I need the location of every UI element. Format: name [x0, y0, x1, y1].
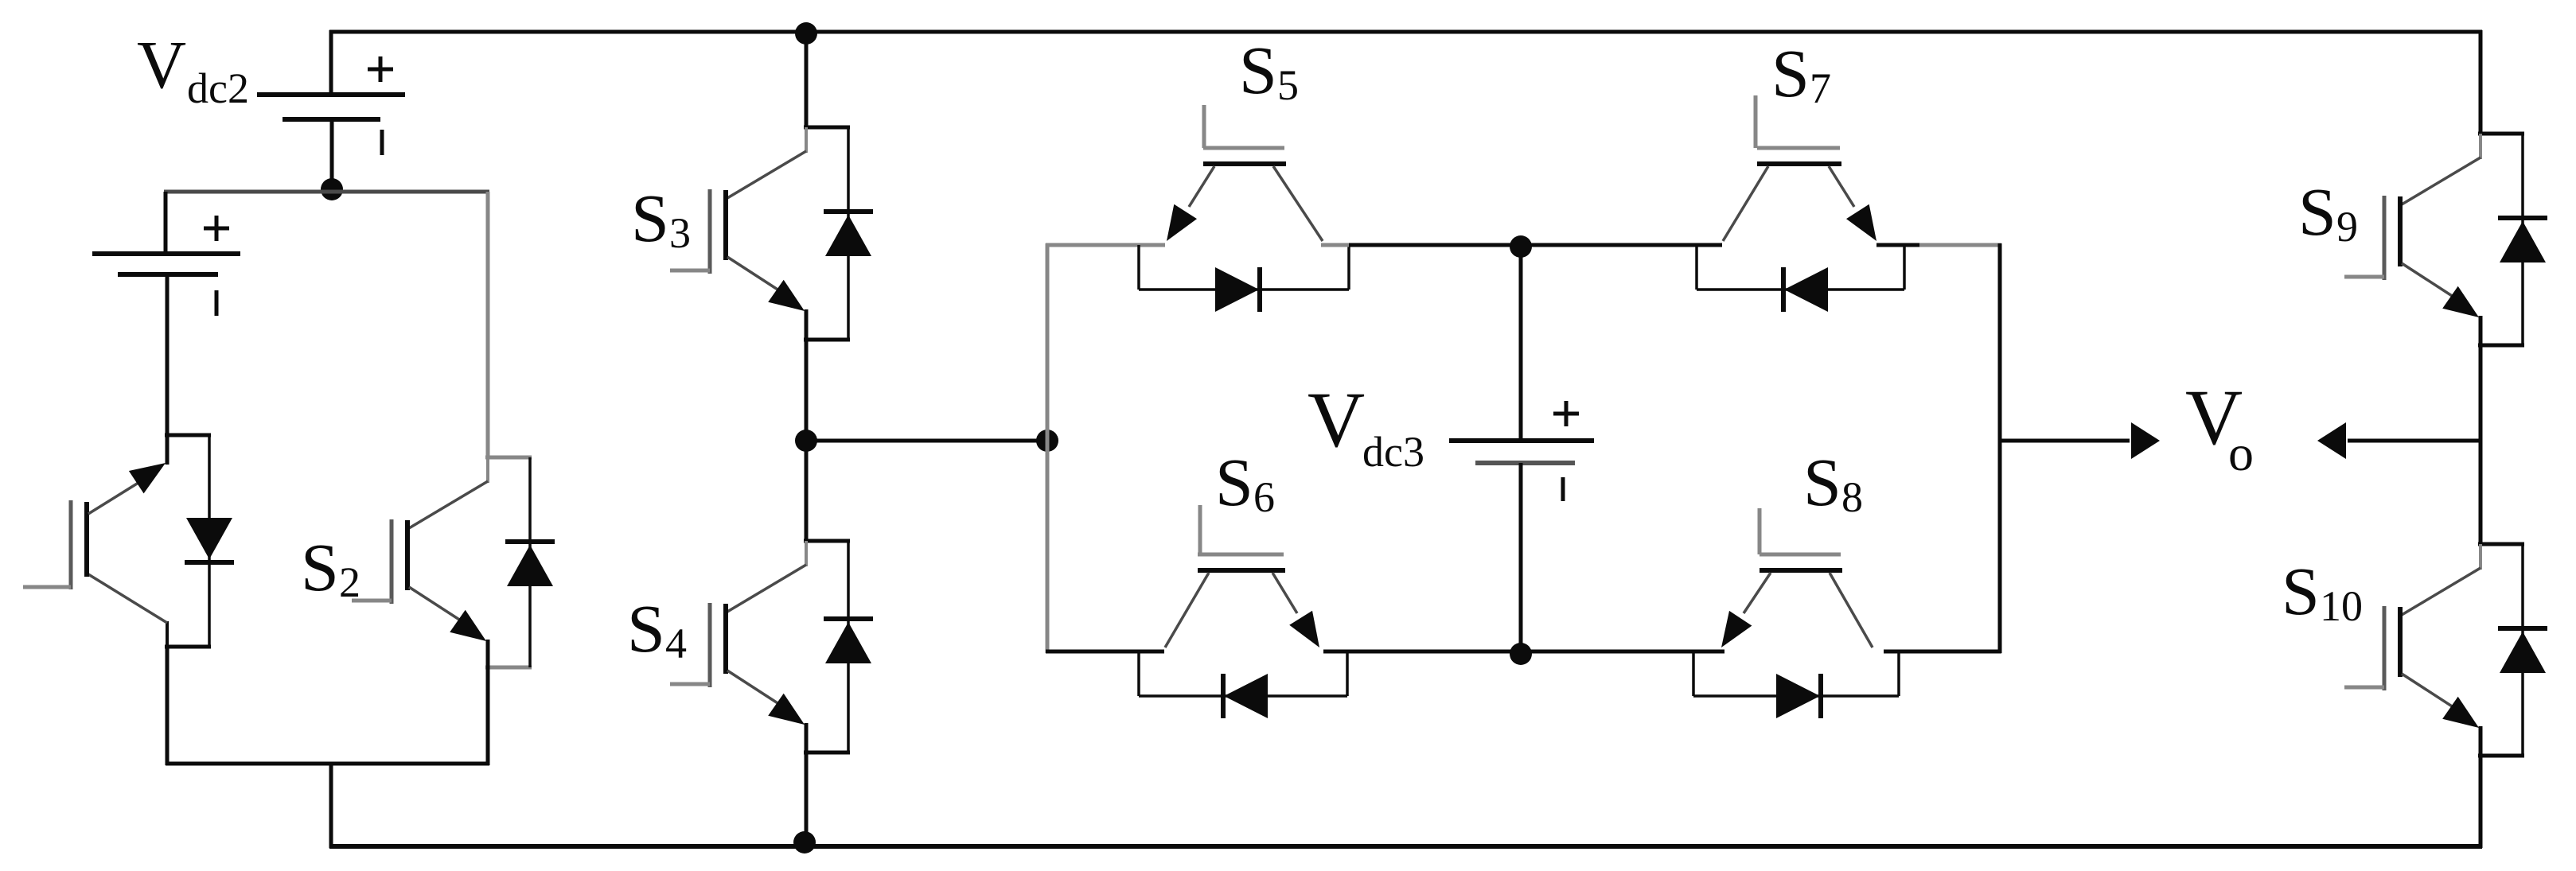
wire S9-S10 midpoint to Vo arrow	[2348, 439, 2482, 443]
transistor S8 (IGBT, horizontal)	[1721, 508, 1873, 647]
battery B1 plus sign	[204, 227, 229, 231]
wire H-bridge bottom middle segment	[1323, 650, 1724, 654]
battery B1 negative plate	[118, 272, 218, 277]
svg-text:5: 5	[1277, 61, 1299, 109]
wire mid node to S4	[805, 441, 809, 542]
svg-text:S: S	[1771, 35, 1810, 111]
wire H-bridge right leg	[1998, 243, 2002, 653]
arrow output pointing right to Vo	[2131, 422, 2160, 459]
node dot capacitor top junction	[1510, 235, 1532, 258]
capacitor Vdc3 positive plate	[1449, 438, 1594, 443]
diode D3 (antiparallel with S3)	[824, 127, 873, 340]
svg-text:9: 9	[2336, 203, 2358, 251]
wire Vdc2 negative plate down to node A	[330, 119, 334, 191]
svg-text:S: S	[1803, 444, 1841, 520]
wire left cell top	[164, 190, 489, 194]
svg-text:3: 3	[669, 209, 691, 257]
svg-text:7: 7	[1810, 64, 1831, 112]
wire top rail left corner down to Vdc2	[329, 30, 333, 96]
arrow from S9-S10 midpoint pointing left to Vo	[2317, 422, 2346, 459]
capacitor Vdc3 minus sign	[1561, 477, 1565, 501]
wire right leg of left cell below S2	[486, 666, 490, 765]
diode D6 (antiparallel with S6)	[1139, 651, 1347, 718]
diode D7 (antiparallel with S7)	[1697, 245, 1904, 312]
transistor S1 (IGBT, unlabeled)	[23, 435, 211, 647]
svg-text:S: S	[301, 529, 339, 605]
svg-text:6: 6	[1253, 473, 1275, 521]
wire capacitor column lower	[1519, 463, 1523, 654]
wire H-bridge top left segment	[1046, 243, 1165, 247]
svg-text:S: S	[627, 590, 665, 667]
svg-text:S: S	[1239, 32, 1277, 108]
node dot on bottom rail below S4	[793, 831, 816, 854]
svg-text:2: 2	[339, 558, 360, 606]
wire H-bridge left leg	[1046, 243, 1050, 653]
wire top rail	[329, 30, 2482, 34]
diode D9 (antiparallel with S9)	[2498, 134, 2547, 345]
svg-text:S: S	[1215, 444, 1253, 520]
transistor S7 (IGBT, horizontal)	[1723, 95, 1876, 241]
battery Vdc2 positive plate	[257, 92, 405, 97]
wire right leg of left cell above S2	[486, 192, 490, 459]
wire S3 to mid node	[805, 338, 809, 442]
wire H-bridge top from S5 to capacitor node	[1321, 243, 1349, 247]
svg-text:8: 8	[1841, 473, 1863, 521]
svg-text:V: V	[137, 26, 186, 103]
svg-text:dc3: dc3	[1362, 428, 1424, 476]
transistor S4 (IGBT)	[670, 541, 850, 752]
wire S9 to midpoint to S10	[2479, 344, 2483, 546]
node mid junction dot below S3	[795, 430, 817, 452]
battery Vdc2 plus sign	[368, 68, 393, 72]
svg-text:V: V	[1307, 375, 1365, 464]
node junction dot on top rail above S3	[795, 22, 817, 45]
wire left leg below S1	[166, 645, 170, 765]
svg-text:dc2: dc2	[187, 64, 249, 112]
wire S10 to bottom rail	[2479, 754, 2483, 848]
transistor S2 (IGBT)	[352, 457, 532, 667]
battery Vdc2 minus sign	[380, 130, 384, 155]
diode D8 (antiparallel with S8)	[1693, 651, 1899, 718]
wire S3 column from top rail	[805, 32, 809, 129]
transistor S5 (IGBT, horizontal)	[1167, 105, 1323, 241]
transistor S10 (IGBT)	[2344, 544, 2524, 756]
wire mid junction to H-bridge left leg	[806, 439, 1047, 443]
transistor S6 (IGBT, horizontal)	[1165, 505, 1319, 647]
wire bottom rail	[329, 844, 2482, 849]
wire left cell bottom drop to bottom rail	[329, 762, 333, 848]
wire S4 to bottom rail	[805, 751, 809, 846]
diode D1 (antiparallel with S1)	[185, 435, 234, 647]
capacitor Vdc3 plus sign	[1553, 412, 1579, 416]
svg-text:4: 4	[665, 620, 687, 667]
node dot capacitor bottom junction	[1510, 643, 1532, 665]
wire H-bridge bottom right segment	[1884, 650, 2001, 654]
diode D10 (antiparallel with S10)	[2498, 544, 2547, 756]
diode D5 (antiparallel with S5)	[1139, 245, 1349, 312]
node A dot	[321, 178, 343, 200]
svg-text:10: 10	[2320, 582, 2363, 630]
capacitor Vdc3 negative plate	[1475, 461, 1575, 465]
diode D2 (antiparallel with S2)	[505, 457, 555, 667]
wire left cell bottom	[166, 762, 489, 766]
diode D4 (antiparallel with S4)	[824, 541, 873, 752]
wire capacitor column upper	[1519, 247, 1523, 441]
wire left leg from battery B1 to S1	[166, 274, 170, 437]
svg-text:S: S	[631, 180, 669, 256]
svg-text:S: S	[2282, 553, 2320, 629]
transistor S9 (IGBT)	[2344, 134, 2524, 345]
wire H-bridge top from S7 to right leg	[1876, 243, 1919, 247]
wire left leg upper	[164, 192, 168, 254]
transistor S3 (IGBT)	[670, 127, 850, 340]
battery Vdc2 negative plate	[283, 117, 380, 122]
wire H-bridge bottom left segment	[1046, 650, 1164, 654]
battery B1 positive plate	[92, 251, 240, 256]
wire top rail right corner down to S9	[2479, 30, 2483, 135]
svg-text:S: S	[2298, 173, 2336, 250]
battery B1 minus sign	[215, 290, 219, 316]
node dot on H-bridge left leg	[1036, 430, 1058, 452]
wire output tap from right leg	[2000, 439, 2130, 443]
svg-text:o: o	[2228, 425, 2254, 481]
